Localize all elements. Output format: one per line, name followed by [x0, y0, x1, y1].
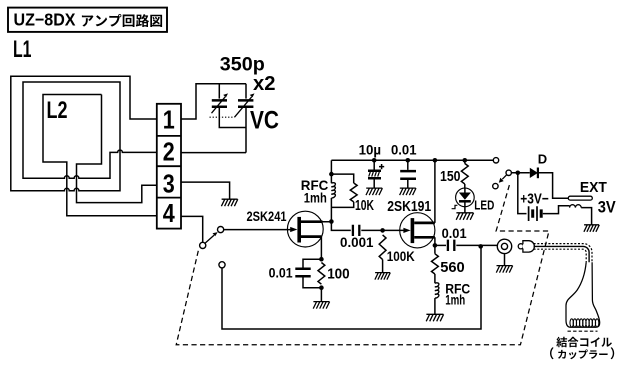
terminal rail end circle — [493, 158, 498, 163]
ground (EXT jack) — [584, 225, 599, 232]
capacitor C 0.001 — [353, 225, 359, 236]
switch SW1 throw contact (bypass) — [219, 262, 225, 268]
wire VC to terminal 2 — [181, 152, 246, 154]
wire VC left section lead — [218, 84, 220, 99]
coupler dashed base — [568, 330, 598, 332]
title box — [8, 8, 167, 32]
svg-text:EXT: EXT — [580, 179, 607, 196]
wire C0.001 to Q2 gate — [361, 229, 406, 231]
label ketsugo coil — [556, 337, 612, 348]
wire C0.01 to output jack — [456, 244, 497, 246]
svg-text:0.01: 0.01 — [391, 142, 417, 157]
svg-text:1: 1 — [163, 105, 175, 135]
wire switch to Q1 gate — [224, 229, 292, 231]
wire terminal1 to VC top bus — [181, 84, 246, 119]
connector terminal block — [157, 104, 181, 229]
wire sleeve to ground — [581, 208, 591, 225]
wire top supply rail — [331, 159, 493, 161]
resistor R 100K — [379, 235, 386, 260]
svg-text:1mh: 1mh — [304, 189, 327, 205]
node switch-battery junction — [516, 171, 521, 176]
resistor R 100 — [318, 263, 325, 285]
svg-text:150: 150 — [440, 169, 461, 185]
svg-text:3: 3 — [163, 169, 175, 199]
ground (Q1 source) — [313, 302, 329, 309]
EXT jack sleeve spring — [570, 205, 582, 208]
ground (RFC2) — [426, 314, 443, 321]
svg-text:1mh: 1mh — [445, 293, 465, 308]
wire diode to EXT tip — [538, 173, 568, 198]
wire VC bottom bus — [219, 107, 246, 153]
coupling coil body (flask) — [566, 262, 600, 327]
wire Q1 drain to C0.001 — [331, 222, 350, 231]
inductor RFC1 1mh — [331, 183, 335, 198]
label coupler — [550, 347, 614, 359]
svg-text:2SK241: 2SK241 — [247, 208, 287, 224]
node rail junction 10u — [372, 158, 377, 163]
ground (0.01 cap) — [400, 188, 416, 195]
VC section b arrow — [235, 97, 252, 117]
ground (terminal 3) — [221, 199, 237, 206]
switch SW1 throw contact (amp) — [218, 227, 224, 233]
coil L2 winding lead to terminal 3 — [77, 95, 157, 203]
wire battery to EXT sleeve — [543, 206, 570, 214]
coil L1 winding (terminals 1-2) — [11, 76, 157, 190]
svg-text:3V: 3V — [598, 198, 616, 216]
cable shield dotted upper — [534, 244, 592, 263]
ground (LED) — [456, 213, 473, 220]
capacitor C 0.01 source — [303, 259, 321, 267]
cable center conductor — [534, 246, 590, 262]
wire switch to diode — [511, 172, 529, 174]
EXT plug tip bar — [568, 196, 592, 200]
wire switch node down to battery — [518, 173, 527, 214]
svg-text:4: 4 — [163, 198, 175, 228]
battery BT1 +3V — [529, 206, 537, 221]
coil L2 winding lead to terminal 4 — [43, 95, 157, 216]
node rail junction 150 — [463, 158, 468, 163]
switch SW2 contact b — [493, 183, 498, 188]
VC gang dotted link — [210, 116, 235, 118]
LED D2 power indicator — [456, 188, 475, 207]
switch SW1 lever arrow — [205, 235, 214, 243]
wire VC right section lead — [245, 84, 247, 99]
wire Q2 source to C0.01 — [435, 244, 446, 246]
capacitor VC section b plates — [238, 100, 253, 106]
switch SW2 lever arrow — [502, 175, 506, 179]
node Q1 drain junction — [329, 219, 334, 224]
wire bypass path — [222, 246, 481, 329]
wire terminal3 to ground — [181, 182, 230, 199]
switch SW2 contact a — [506, 170, 511, 175]
svg-text:10K: 10K — [355, 197, 374, 214]
capacitor C 10u electrolytic — [373, 160, 375, 169]
svg-text:100: 100 — [327, 266, 350, 283]
svg-text:2SK191: 2SK191 — [387, 199, 431, 215]
diode D — [530, 168, 538, 178]
resistor R 10K — [331, 174, 353, 183]
svg-text:2: 2 — [163, 137, 175, 167]
svg-text:0.01: 0.01 — [442, 226, 467, 241]
svg-text:560: 560 — [440, 259, 465, 276]
svg-text:100K: 100K — [387, 249, 415, 264]
node rail junction 0.01 — [406, 158, 411, 163]
svg-text:x2: x2 — [253, 73, 276, 95]
svg-text:10µ: 10µ — [359, 141, 382, 157]
ground (output jack) — [496, 266, 512, 273]
ground (100K) — [375, 273, 390, 280]
capacitor C 0.01 output — [448, 240, 454, 251]
svg-text:UZ−8DX: UZ−8DX — [14, 10, 76, 30]
plug P1 (cable plug) — [518, 244, 523, 249]
capacitor VC section a plates — [212, 100, 227, 106]
transistor Q2 2SK191 — [400, 213, 435, 248]
svg-text:L2: L2 — [47, 97, 68, 124]
node Q1 source bottom junction — [319, 285, 324, 290]
svg-text:D: D — [538, 152, 547, 167]
node Q2 gate junction — [380, 228, 385, 233]
svg-text:+3V−: +3V− — [520, 191, 549, 207]
ground (10u cap) — [366, 188, 382, 195]
output jack J1 inner — [501, 243, 507, 249]
capacitor C 0.01 bypass — [407, 160, 409, 170]
title text amp-kairozu — [82, 14, 162, 27]
output jack J1 outer — [497, 239, 511, 253]
wire rail corner down to RFC — [330, 160, 332, 183]
svg-text:0.01: 0.01 — [269, 265, 293, 281]
node RFC top junction — [329, 172, 334, 177]
wire to ground Q1 source — [320, 288, 322, 302]
node output junction — [478, 244, 483, 249]
svg-text:0.001: 0.001 — [340, 235, 374, 250]
coupling coil turns — [570, 319, 573, 327]
inductor RFC2 1mh — [435, 283, 439, 298]
dashed amplifier unit boundary — [176, 182, 549, 345]
switch SW1 pole contact — [200, 242, 206, 248]
transistor Q1 2SK241 — [287, 211, 323, 247]
VC section a arrow — [212, 97, 226, 113]
wire jack to ground — [504, 254, 506, 266]
resistor R 150 — [461, 164, 468, 185]
node Q2 drain rail junction — [433, 158, 438, 163]
wire terminal4 to switch — [181, 216, 203, 242]
cable shield dotted lower — [534, 249, 587, 262]
node Q1 source junction — [319, 257, 324, 262]
svg-text:L1: L1 — [13, 36, 32, 63]
svg-text:VC: VC — [250, 107, 279, 135]
node Q2 source junction — [433, 243, 438, 248]
svg-text:LED: LED — [474, 198, 494, 213]
resistor R 560 — [432, 254, 439, 274]
